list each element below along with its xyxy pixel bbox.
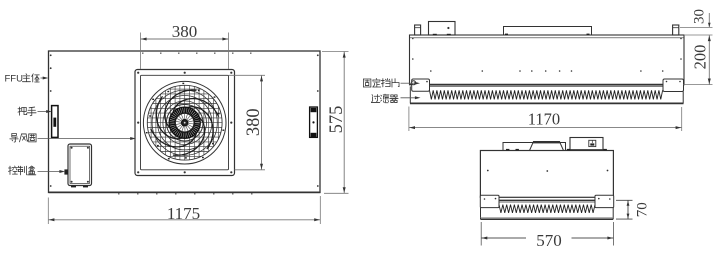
dimension 570 (filter width) <box>481 222 613 250</box>
handle (right side, top view) <box>310 107 318 137</box>
side view: housing <box>410 35 685 85</box>
svg-text:FFU: FFU <box>5 74 24 85</box>
end view: rivet dots <box>487 170 608 172</box>
side view: right fixing clip <box>663 79 684 92</box>
label FFU main body (FFU主体) <box>5 74 49 85</box>
side view: filter top frame <box>410 84 685 86</box>
side view: motor cover <box>504 27 592 36</box>
svg-text:200: 200 <box>691 45 710 70</box>
control box <box>64 144 91 187</box>
label handle (把手) <box>18 107 52 116</box>
side view: left bolt <box>415 25 421 35</box>
end view: housing <box>480 151 613 198</box>
end view: left bracket <box>480 195 499 207</box>
handle (left side, top view) <box>52 106 58 138</box>
label air guide ring (导风圈) <box>10 134 136 142</box>
side view: filter pleats zigzag <box>430 90 663 99</box>
svg-text:570: 570 <box>536 231 562 250</box>
side view: rivet dots <box>412 38 682 72</box>
end view: top feet marks <box>506 149 607 151</box>
svg-text:1170: 1170 <box>528 109 560 128</box>
dimension 1170 (filter width) <box>409 107 682 132</box>
dimension 575 (right side, overall height) <box>322 52 349 194</box>
svg-text:30: 30 <box>692 9 708 24</box>
dimension 1175 (bottom, overall width) <box>48 196 320 224</box>
dimension 30 (bolt height) <box>680 9 713 27</box>
fan guard concentric rings <box>143 81 226 164</box>
side view: filter bottom frame <box>410 86 684 103</box>
svg-text:575: 575 <box>327 106 347 134</box>
end view: right bracket <box>595 195 614 207</box>
svg-text:380: 380 <box>244 108 264 136</box>
label control box (控制盒) <box>8 166 65 175</box>
end view: filter bottom band <box>481 208 614 220</box>
fan frame screws <box>137 72 232 174</box>
dimension 380 (top, fan width) <box>141 22 229 69</box>
dimension 380 (right of fan, vertical) <box>229 75 266 170</box>
end view: filter pleats zigzag <box>499 205 595 213</box>
end view: filter top frame <box>499 200 595 202</box>
fan impeller hub ring <box>169 107 201 139</box>
label filter (过滤器) <box>371 94 420 103</box>
end view: carrying handle <box>530 141 564 150</box>
dimension 200 (housing height) <box>684 35 713 85</box>
label fixing clip (固定挡片) <box>363 78 420 87</box>
svg-text:380: 380 <box>172 22 198 41</box>
end view: junction box <box>570 138 603 150</box>
housing screws (top view) <box>50 53 319 195</box>
fan impeller blades (spiral arcs) <box>151 90 219 155</box>
svg-text:70: 70 <box>635 202 651 217</box>
fan hub spokes <box>176 114 194 132</box>
side view: right bolt <box>673 25 679 35</box>
fan frame <box>135 70 235 176</box>
FFU top view: housing outline <box>49 51 321 193</box>
side view: junction box <box>429 22 456 36</box>
dimension 70 (filter height) <box>616 200 651 219</box>
end view: motor cover <box>503 143 566 151</box>
fan guard small markings <box>146 83 224 160</box>
fan hub center <box>182 120 188 126</box>
side view: left fixing clip <box>412 79 430 91</box>
svg-text:1175: 1175 <box>167 204 200 223</box>
